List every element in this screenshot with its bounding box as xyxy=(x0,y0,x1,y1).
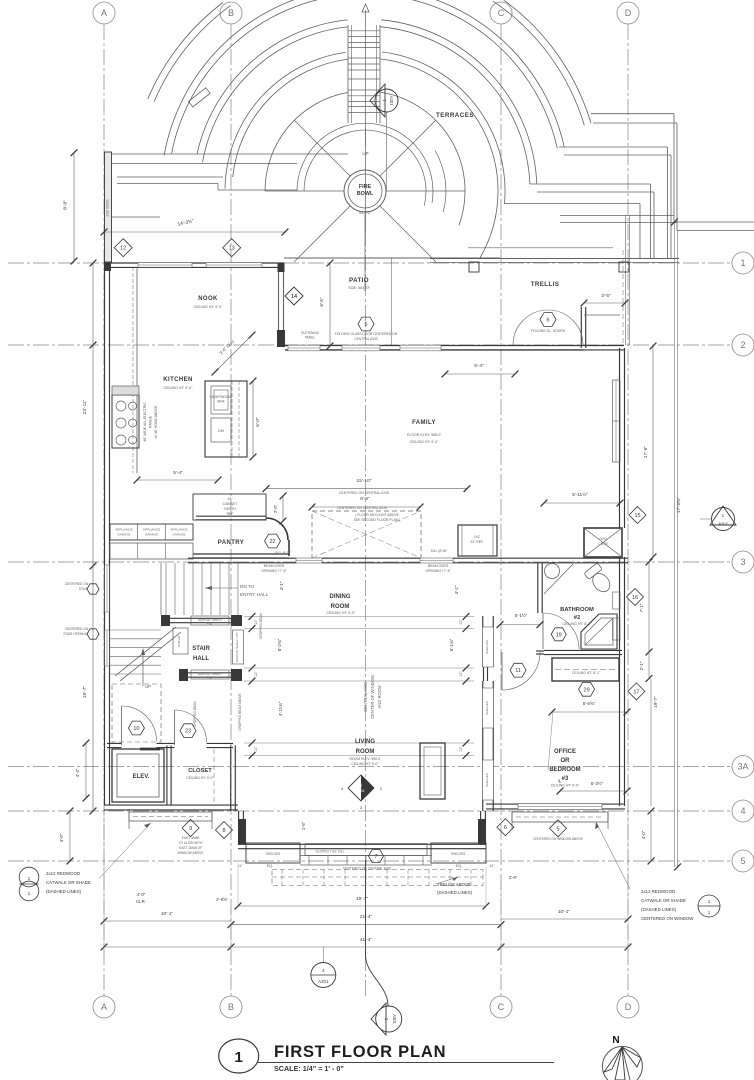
svg-text:DN TO: DN TO xyxy=(240,584,255,589)
svg-text:4'-1": 4'-1" xyxy=(454,585,459,594)
svg-text:B: B xyxy=(228,8,234,18)
svg-text:CEILING HT: 9'-0": CEILING HT: 9'-0" xyxy=(551,784,580,788)
svg-text:SCALE: 1/4" = 1' - 0": SCALE: 1/4" = 1' - 0" xyxy=(274,1064,344,1073)
svg-text:w/ 48" HOOD ABOVE: w/ 48" HOOD ABOVE xyxy=(154,405,158,439)
svg-text:REF: REF xyxy=(227,512,234,516)
svg-text:CEILING HT: 9'-0": CEILING HT: 9'-0" xyxy=(194,305,224,309)
svg-text:TRELLIS: TRELLIS xyxy=(531,281,560,288)
svg-text:2'-9": 2'-9" xyxy=(509,875,518,880)
svg-text:CEILING HT: 9'-0": CEILING HT: 9'-0" xyxy=(327,611,357,615)
svg-text:5: 5 xyxy=(740,856,745,866)
svg-text:1: 1 xyxy=(708,899,711,904)
svg-text:BOWL: BOWL xyxy=(357,191,374,197)
svg-text:OPENING +7'-6": OPENING +7'-6" xyxy=(261,569,287,573)
svg-text:AND ROOM: AND ROOM xyxy=(377,685,382,709)
svg-text:5'-11½": 5'-11½" xyxy=(572,491,588,498)
svg-text:B: B xyxy=(228,1002,234,1012)
svg-text:48" WIDE ALL-ELECTRIC: 48" WIDE ALL-ELECTRIC xyxy=(143,402,147,442)
svg-text:GARAGE: GARAGE xyxy=(117,533,130,537)
svg-text:DROPPED BEAM ABOVE: DROPPED BEAM ABOVE xyxy=(238,693,242,730)
svg-text:CLR.: CLR. xyxy=(136,899,146,904)
svg-text:2'-1": 2'-1" xyxy=(639,661,644,670)
svg-text:ENTRY HALL: ENTRY HALL xyxy=(240,592,269,597)
svg-text:16: 16 xyxy=(632,595,638,601)
svg-text:#3: #3 xyxy=(562,776,569,782)
svg-text:24" REF.: 24" REF. xyxy=(470,540,483,544)
svg-text:APPLIANCE: APPLIANCE xyxy=(115,528,132,532)
svg-text:SHELVES: SHELVES xyxy=(266,852,280,856)
svg-text:N: N xyxy=(612,1035,619,1046)
svg-text:5'-4": 5'-4" xyxy=(173,470,183,476)
svg-text:SHELVES: SHELVES xyxy=(485,701,489,715)
svg-text:15: 15 xyxy=(634,513,640,519)
svg-text:17: 17 xyxy=(633,689,639,695)
svg-text:BEAM OVER: BEAM OVER xyxy=(428,564,449,568)
svg-text:ROOM: ROOM xyxy=(331,604,350,610)
svg-text:19'-7": 19'-7" xyxy=(82,686,88,699)
svg-text:A301: A301 xyxy=(389,96,394,106)
svg-text:SLOPED TILE SILL: SLOPED TILE SILL xyxy=(316,850,345,854)
svg-text:DW: DW xyxy=(218,429,225,433)
svg-text:12": 12" xyxy=(459,671,463,677)
svg-text:SHELVES: SHELVES xyxy=(485,640,489,654)
svg-text:UP: UP xyxy=(362,151,368,156)
svg-text:42": 42" xyxy=(228,497,234,501)
svg-text:BEAM OVER: BEAM OVER xyxy=(264,564,285,568)
svg-text:PANTRY: PANTRY xyxy=(218,540,244,546)
svg-text:8: 8 xyxy=(222,828,225,834)
svg-text:1: 1 xyxy=(708,910,711,915)
svg-text:EQ.: EQ. xyxy=(456,864,463,868)
svg-text:11: 11 xyxy=(515,668,521,674)
svg-text:12": 12" xyxy=(254,671,258,677)
svg-text:NOOK: NOOK xyxy=(198,296,218,302)
svg-text:2'-9⅝": 2'-9⅝" xyxy=(216,897,228,902)
svg-text:6: 6 xyxy=(504,825,507,831)
svg-text:4'-0": 4'-0" xyxy=(641,830,646,839)
svg-text:7: 7 xyxy=(374,854,377,860)
svg-text:#2: #2 xyxy=(574,615,580,621)
svg-text:( FLOOR SKYLIGHT ABOVE: ( FLOOR SKYLIGHT ABOVE xyxy=(355,513,400,517)
svg-text:1'-6": 1'-6" xyxy=(301,821,306,830)
svg-text:C: C xyxy=(498,8,505,18)
svg-text:4'-11¾": 4'-11¾" xyxy=(278,701,283,716)
svg-text:SHELVES: SHELVES xyxy=(451,852,465,856)
svg-text:2x8 S80S: 2x8 S80S xyxy=(105,199,110,217)
svg-text:SEE SECOND FLOOR PLAN ): SEE SECOND FLOOR PLAN ) xyxy=(354,518,401,522)
svg-text:CENTERED ON CENTRAL AXIS: CENTERED ON CENTRAL AXIS xyxy=(343,867,392,871)
svg-text:A301: A301 xyxy=(392,1014,397,1024)
svg-text:O/C: O/C xyxy=(474,535,481,539)
svg-text:1: 1 xyxy=(28,891,31,897)
svg-text:A302: A302 xyxy=(718,521,728,526)
svg-text:UNDERMOUNT: UNDERMOUNT xyxy=(209,395,232,399)
svg-text:GARAGE: GARAGE xyxy=(172,533,185,537)
svg-text:2'-0": 2'-0" xyxy=(273,504,278,513)
svg-text:SHELVES: SHELVES xyxy=(485,773,489,787)
svg-text:BEDROOM: BEDROOM xyxy=(549,767,580,773)
svg-text:+36": +36" xyxy=(207,676,214,680)
svg-text:APPLIANCE: APPLIANCE xyxy=(170,528,187,532)
svg-text:FLOOR ELEV: 585.0': FLOOR ELEV: 585.0' xyxy=(407,433,441,437)
svg-text:5'-2¾": 5'-2¾" xyxy=(277,638,282,651)
svg-text:ELEV.: ELEV. xyxy=(133,774,150,780)
svg-text:FAMILY: FAMILY xyxy=(412,420,436,426)
svg-text:STAIR OPENING: STAIR OPENING xyxy=(63,632,88,636)
svg-text:12: 12 xyxy=(120,246,126,252)
svg-text:21'-4": 21'-4" xyxy=(360,914,373,920)
svg-text:5: 5 xyxy=(364,322,367,328)
svg-text:EAST JAMB OF: EAST JAMB OF xyxy=(179,846,202,850)
svg-text:FIRE: FIRE xyxy=(359,184,372,190)
svg-text:HALL: HALL xyxy=(193,656,209,662)
svg-text:PATIO: PATIO xyxy=(349,277,369,284)
svg-text:5'-1½": 5'-1½" xyxy=(515,613,528,618)
svg-text:CLOSET: CLOSET xyxy=(188,768,212,774)
svg-text:SILL @ 36": SILL @ 36" xyxy=(275,551,293,555)
svg-text:A: A xyxy=(101,8,107,18)
svg-text:3'-5": 3'-5" xyxy=(601,293,611,299)
svg-text:9: 9 xyxy=(189,826,192,832)
svg-text:4'-4": 4'-4" xyxy=(75,768,80,777)
svg-text:CENTERED ON WINDOW ABOVE: CENTERED ON WINDOW ABOVE xyxy=(533,837,583,841)
svg-text:11": 11" xyxy=(237,864,243,868)
svg-text:19'-7": 19'-7" xyxy=(653,696,658,708)
svg-text:41'-4": 41'-4" xyxy=(360,937,373,943)
svg-text:CEILING HT: 8'-1": CEILING HT: 8'-1" xyxy=(563,622,593,626)
svg-text:GARAGE: GARAGE xyxy=(145,533,158,537)
svg-text:4: 4 xyxy=(322,968,325,974)
svg-text:8'-6": 8'-6" xyxy=(360,496,370,502)
svg-text:UP: UP xyxy=(145,684,151,689)
svg-text:12": 12" xyxy=(254,746,258,752)
svg-text:12": 12" xyxy=(459,619,463,625)
svg-text:CNTR: CNTR xyxy=(598,542,608,546)
svg-text:FIRST FLOOR PLAN: FIRST FLOOR PLAN xyxy=(274,1043,446,1061)
svg-text:19'-7": 19'-7" xyxy=(356,896,369,902)
svg-text:14: 14 xyxy=(291,294,297,300)
svg-text:CENTERED ON CENTRAL AXIS: CENTERED ON CENTRAL AXIS xyxy=(339,491,390,495)
svg-text:DEPTH: DEPTH xyxy=(224,507,236,511)
svg-text:STAIR: STAIR xyxy=(192,646,210,652)
svg-text:ROOM ELEV: 590.0': ROOM ELEV: 590.0' xyxy=(349,757,380,761)
svg-text:CEILING HT: 9'-0": CEILING HT: 9'-0" xyxy=(410,440,440,444)
svg-text:APPLIANCE: APPLIANCE xyxy=(143,528,160,532)
svg-text:LIVING: LIVING xyxy=(355,739,375,745)
svg-text:SILL @ 36": SILL @ 36" xyxy=(431,549,449,553)
svg-text:12": 12" xyxy=(459,746,463,752)
svg-text:5: 5 xyxy=(556,826,559,832)
svg-text:DISPLAY SHELF +36": DISPLAY SHELF +36" xyxy=(235,632,239,662)
svg-text:29: 29 xyxy=(584,687,590,693)
svg-text:5'-3½": 5'-3½" xyxy=(591,781,604,786)
svg-text:CENTERED ON CENTRAL AXIS: CENTERED ON CENTRAL AXIS xyxy=(337,506,388,510)
svg-text:4'-0": 4'-0" xyxy=(59,833,64,842)
svg-text:A: A xyxy=(101,1002,107,1012)
svg-text:11": 11" xyxy=(489,864,495,868)
svg-text:SIZE: 584 SF: SIZE: 584 SF xyxy=(348,286,370,290)
svg-text:EAST JAMB: EAST JAMB xyxy=(182,836,200,840)
svg-text:17'-0¾": 17'-0¾" xyxy=(676,497,682,514)
svg-text:5'-4": 5'-4" xyxy=(474,363,484,369)
svg-text:17'-5": 17'-5" xyxy=(643,446,649,459)
svg-text:SINK: SINK xyxy=(217,400,225,404)
svg-text:TRELLIS ABOVE: TRELLIS ABOVE xyxy=(437,882,471,887)
svg-text:DINING: DINING xyxy=(330,594,351,600)
svg-text:CEILING HT: 8'-1": CEILING HT: 8'-1" xyxy=(572,671,601,675)
svg-text:2x12 REDWOOD: 2x12 REDWOOD xyxy=(641,889,675,894)
svg-text:CENTER OF WINDOW: CENTER OF WINDOW xyxy=(370,675,375,719)
svg-text:10: 10 xyxy=(133,726,139,732)
svg-text:2: 2 xyxy=(740,340,745,350)
svg-text:DROPPED BEAM: DROPPED BEAM xyxy=(193,701,197,727)
svg-text:13: 13 xyxy=(229,246,235,252)
svg-text:CENTRAL AXIS: CENTRAL AXIS xyxy=(363,682,368,712)
svg-text:1: 1 xyxy=(740,258,745,268)
svg-text:CEILING HT: 9'-0": CEILING HT: 9'-0" xyxy=(186,776,214,780)
svg-text:CABINET: CABINET xyxy=(223,502,238,506)
svg-text:OUTSWING: OUTSWING xyxy=(301,331,320,335)
svg-text:+36": +36" xyxy=(207,622,214,626)
svg-text:6'-0": 6'-0" xyxy=(255,417,261,427)
svg-text:4: 4 xyxy=(740,806,745,816)
svg-text:10'-1": 10'-1" xyxy=(161,911,174,917)
svg-text:3A: 3A xyxy=(737,762,748,772)
svg-text:PANEL: PANEL xyxy=(305,336,316,340)
svg-text:CENTRAL AXIS: CENTRAL AXIS xyxy=(354,337,378,341)
svg-text:TO ALIGN WITH: TO ALIGN WITH xyxy=(179,841,203,845)
svg-text:8'-8": 8'-8" xyxy=(63,200,69,210)
svg-text:4'-0": 4'-0" xyxy=(137,892,146,897)
svg-text:(DASHED LINES): (DASHED LINES) xyxy=(641,907,677,912)
svg-text:3: 3 xyxy=(740,557,745,567)
svg-text:FOLDING GL. DOORS: FOLDING GL. DOORS xyxy=(531,329,566,333)
svg-text:STAIR: STAIR xyxy=(79,587,89,591)
svg-text:1: 1 xyxy=(384,1018,389,1021)
svg-text:7'-1": 7'-1" xyxy=(639,603,644,612)
svg-text:(DASHED LINES): (DASHED LINES) xyxy=(46,889,82,894)
svg-text:RANGE: RANGE xyxy=(149,415,153,428)
svg-text:KITCHEN: KITCHEN xyxy=(163,377,192,383)
svg-text:BATHROOM: BATHROOM xyxy=(560,607,594,613)
svg-text:H2O: H2O xyxy=(600,537,607,541)
svg-text:D: D xyxy=(625,1002,632,1012)
svg-text:12": 12" xyxy=(254,619,258,625)
svg-text:ROOM: ROOM xyxy=(356,749,375,755)
svg-text:(DASHED LINES): (DASHED LINES) xyxy=(437,890,473,895)
svg-text:TERRACES: TERRACES xyxy=(436,112,474,119)
svg-text:CENTERED ON: CENTERED ON xyxy=(65,627,89,631)
svg-text:DISPLAY: DISPLAY xyxy=(177,635,181,647)
svg-text:2x12 REDWOOD: 2x12 REDWOOD xyxy=(46,871,80,876)
svg-text:15'-10": 15'-10" xyxy=(357,478,372,484)
svg-text:5'-1¾": 5'-1¾" xyxy=(449,638,454,651)
svg-text:A401: A401 xyxy=(357,789,365,793)
svg-text:1: 1 xyxy=(235,1049,243,1066)
svg-text:6: 6 xyxy=(546,317,549,323)
svg-text:CENTERED ON: CENTERED ON xyxy=(65,582,89,586)
svg-text:23'-11": 23'-11" xyxy=(82,399,88,414)
svg-text:5'-5⅝": 5'-5⅝" xyxy=(583,701,596,706)
svg-text:22: 22 xyxy=(269,539,275,545)
svg-text:EQ.: EQ. xyxy=(267,864,274,868)
svg-text:4'-1": 4'-1" xyxy=(279,581,284,590)
svg-text:A201: A201 xyxy=(318,979,329,984)
svg-text:D: D xyxy=(625,8,632,18)
svg-text:10'-1": 10'-1" xyxy=(558,909,571,915)
svg-text:CATWALK OR SHADE: CATWALK OR SHADE xyxy=(46,880,91,885)
svg-text:CEILING HT: 9'-0": CEILING HT: 9'-0" xyxy=(351,762,379,766)
svg-text:19: 19 xyxy=(556,632,562,638)
svg-text:C: C xyxy=(498,1002,505,1012)
svg-text:OFFICE: OFFICE xyxy=(554,749,576,755)
svg-text:6'-5": 6'-5" xyxy=(319,297,324,307)
svg-text:CATWALK OR SHADE: CATWALK OR SHADE xyxy=(641,898,686,903)
svg-text:CENTERED ON WINDOW: CENTERED ON WINDOW xyxy=(641,916,694,921)
svg-text:OR: OR xyxy=(561,758,571,764)
svg-text:OPENING +7'-6": OPENING +7'-6" xyxy=(425,569,451,573)
svg-text:WINDOW ABOVE: WINDOW ABOVE xyxy=(178,851,204,855)
svg-text:CEILING HT: 9'-0": CEILING HT: 9'-0" xyxy=(164,386,194,390)
svg-text:FOLDING GLASS DOOR CENTERED ON: FOLDING GLASS DOOR CENTERED ON xyxy=(335,332,398,336)
svg-text:23: 23 xyxy=(185,729,191,735)
